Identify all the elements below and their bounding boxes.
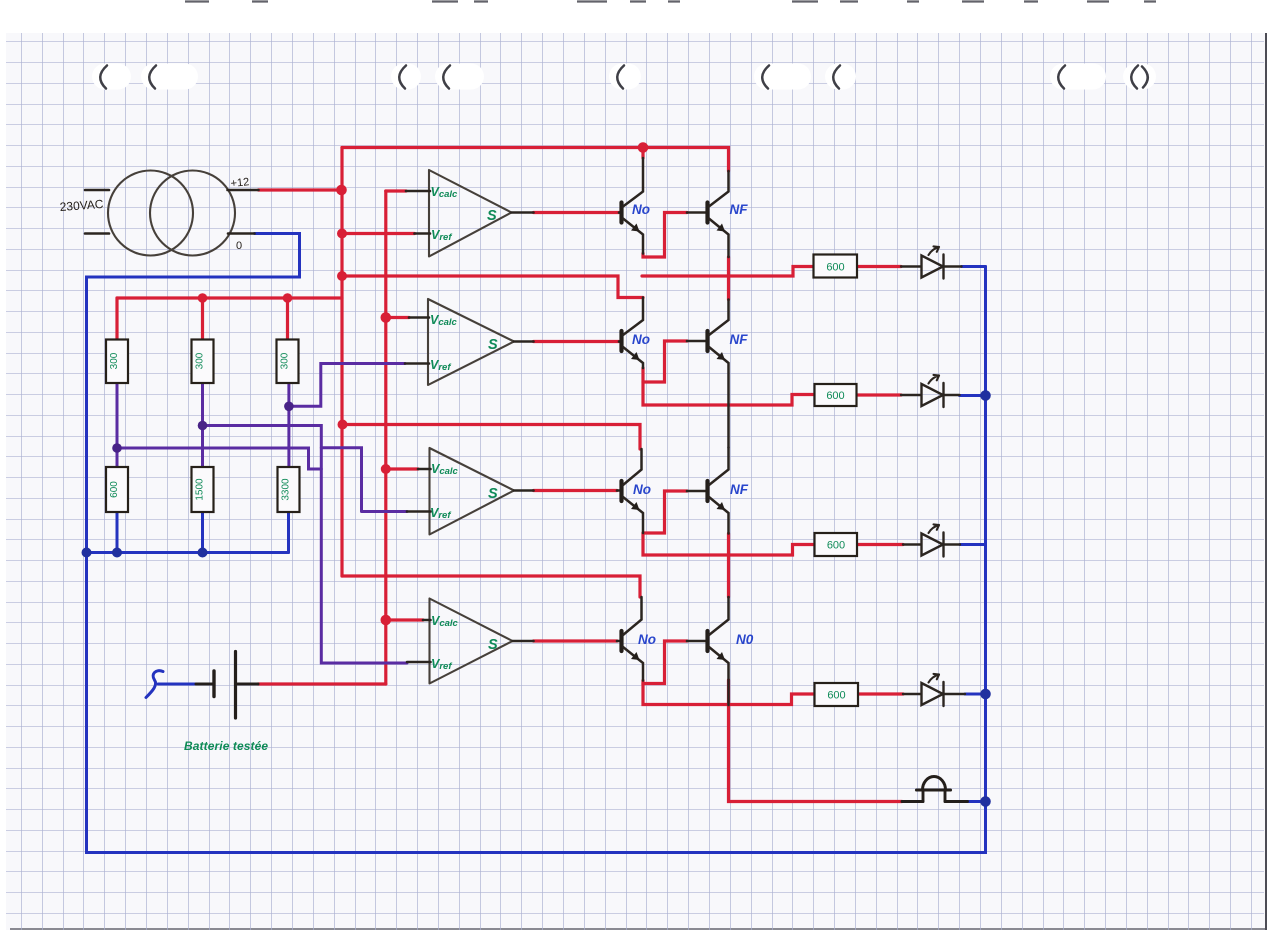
svg-text:S: S [488,486,498,502]
svg-text:No: No [638,632,656,647]
svg-text:NF: NF [730,482,749,497]
svg-text:NF: NF [730,332,749,347]
svg-text:S: S [488,337,498,353]
svg-text:NF: NF [730,202,749,217]
svg-text:600: 600 [827,690,845,702]
svg-text:Vcalc: Vcalc [431,614,459,629]
svg-text:Vref: Vref [431,657,452,672]
svg-text:0: 0 [236,240,242,252]
svg-text:+12: +12 [230,176,250,190]
svg-text:No: No [632,202,650,217]
svg-text:Vref: Vref [431,228,452,243]
svg-text:300: 300 [280,352,291,369]
svg-text:230VAC: 230VAC [59,197,104,214]
svg-text:600: 600 [827,540,845,552]
svg-text:Batterie testée: Batterie testée [184,739,268,753]
svg-text:Vref: Vref [430,506,451,521]
svg-text:Vref: Vref [430,358,451,373]
svg-text:S: S [488,637,498,653]
svg-text:Vcalc: Vcalc [430,313,458,328]
svg-text:300: 300 [195,352,206,369]
svg-text:300: 300 [109,352,120,369]
svg-text:Vcalc: Vcalc [431,462,459,477]
svg-text:S: S [487,208,497,224]
svg-text:600: 600 [826,390,844,402]
svg-text:No: No [633,482,651,497]
svg-text:N0: N0 [736,632,754,647]
svg-text:3300: 3300 [281,478,292,501]
svg-text:No: No [632,332,650,347]
svg-text:1500: 1500 [195,478,206,501]
svg-text:600: 600 [109,481,120,498]
svg-text:600: 600 [826,262,844,274]
